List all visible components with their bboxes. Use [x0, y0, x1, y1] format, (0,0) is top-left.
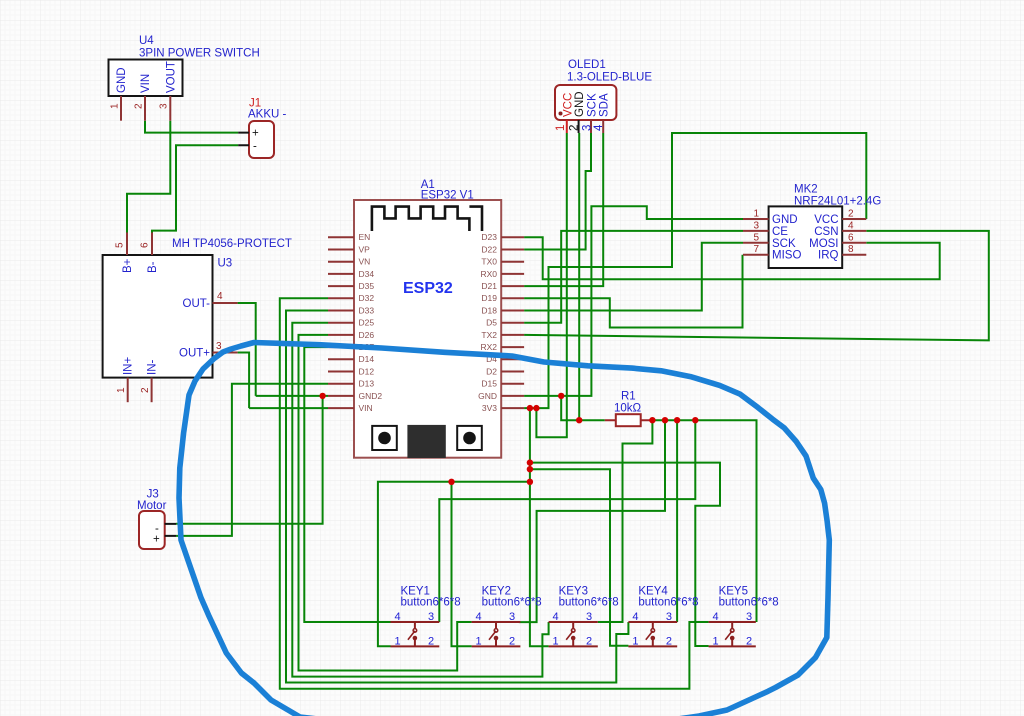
svg-text:button6*6*8: button6*6*8	[482, 597, 542, 609]
antenna meander	[372, 207, 482, 231]
display OLED1	[555, 59, 652, 120]
pin 1 NRF GND	[743, 209, 798, 227]
svg-text:6: 6	[140, 242, 151, 248]
wire ESP32.D23 to NRF.MOSI	[524, 237, 940, 279]
svg-text:TX0: TX0	[481, 257, 497, 267]
svg-text:AKKU -: AKKU -	[248, 109, 287, 121]
svg-text:D26: D26	[359, 330, 375, 340]
svg-text:D14: D14	[359, 354, 375, 364]
resistor R1 10k	[605, 391, 652, 427]
svg-text:IRQ: IRQ	[818, 250, 839, 262]
svg-text:4: 4	[713, 611, 719, 623]
svg-text:3PIN POWER SWITCH: 3PIN POWER SWITCH	[139, 48, 260, 60]
svg-text:+: +	[153, 534, 160, 546]
svg-text:VCC: VCC	[562, 93, 574, 117]
svg-text:MISO: MISO	[772, 250, 801, 262]
svg-text:D19: D19	[481, 293, 497, 303]
svg-text:NRF24L01+2.4G: NRF24L01+2.4G	[794, 196, 881, 208]
svg-text:2: 2	[666, 635, 672, 647]
wire R1 branch to KEY4.3	[676, 420, 678, 622]
svg-text:RX2: RX2	[480, 342, 497, 352]
junction pullup b	[527, 466, 533, 472]
svg-text:1: 1	[394, 635, 400, 647]
svg-text:10kΩ: 10kΩ	[614, 403, 642, 415]
svg-text:D12: D12	[359, 366, 375, 376]
wire OLED.VCC to 3V3 junction	[536, 133, 566, 437]
svg-text:D21: D21	[481, 281, 497, 291]
svg-text:button6*6*8: button6*6*8	[401, 597, 461, 609]
junction 3V3 row a	[527, 405, 533, 411]
pin 1 U3 IN+	[116, 357, 135, 403]
connector J3 Motor	[137, 489, 176, 550]
junction GND row	[558, 393, 564, 399]
svg-text:D2: D2	[486, 366, 497, 376]
svg-text:2: 2	[586, 635, 592, 647]
pin 8 NRF IRQ	[818, 244, 866, 262]
pin 3 U4	[159, 96, 171, 121]
svg-text:D18: D18	[481, 305, 497, 315]
svg-text:SCK: SCK	[772, 238, 796, 250]
ESP32 right pins	[478, 232, 524, 413]
wire ESP32.D5 to NRF.CE	[524, 231, 743, 323]
svg-text:1: 1	[754, 209, 760, 220]
connector J1 AKKU	[238, 98, 286, 159]
svg-text:D5: D5	[486, 318, 497, 328]
wire pullup branch to KEY5.1	[530, 463, 720, 646]
ESP32 left pins	[328, 232, 382, 413]
svg-text:TX2: TX2	[481, 330, 497, 340]
svg-text:3V3: 3V3	[482, 403, 497, 413]
svg-text:button6*6*8: button6*6*8	[719, 597, 779, 609]
svg-text:2: 2	[569, 125, 581, 131]
wire ESP32.D33 to KEY4.4	[286, 311, 628, 683]
pin 1 OLED VCC	[555, 93, 574, 133]
svg-text:VIN: VIN	[359, 403, 373, 413]
svg-text:B-: B-	[147, 261, 159, 273]
svg-text:GND: GND	[478, 391, 497, 401]
pin 7 NRF MISO	[743, 244, 801, 262]
svg-text:2: 2	[848, 209, 854, 220]
pin 3 OLED SCK	[582, 93, 599, 133]
button KEY5	[709, 586, 779, 648]
svg-text:2: 2	[134, 103, 145, 109]
svg-text:U4: U4	[139, 35, 154, 47]
svg-text:MH TP4056-PROTECT: MH TP4056-PROTECT	[172, 238, 292, 250]
svg-text:CSN: CSN	[814, 226, 838, 238]
svg-text:D34: D34	[359, 269, 375, 279]
svg-text:+: +	[252, 128, 259, 140]
wire ESP32.D27 to KEY1.4	[304, 347, 390, 622]
svg-text:GND: GND	[574, 91, 586, 117]
svg-text:VCC: VCC	[814, 214, 838, 226]
svg-text:SCK: SCK	[587, 93, 599, 117]
svg-text:1.3-OLED-BLUE: 1.3-OLED-BLUE	[567, 72, 652, 84]
button KEY2	[472, 586, 542, 648]
svg-text:VOUT: VOUT	[166, 61, 178, 93]
junction R1 right a	[649, 417, 655, 423]
svg-text:J3: J3	[147, 489, 159, 501]
pin 5 NRF SCK	[743, 232, 796, 250]
wire pullup branch to KEY4.1	[530, 469, 629, 646]
svg-text:3: 3	[509, 611, 515, 623]
svg-text:2: 2	[509, 635, 515, 647]
pin 3 NRF CE	[743, 220, 788, 238]
svg-text:D32: D32	[359, 293, 375, 303]
ESP32 boot button left	[372, 426, 397, 450]
junction R1 right b	[662, 417, 668, 423]
wire ESP32.D26 to KEY2.4	[299, 335, 472, 671]
wire OLED.GND down to R1 row	[578, 133, 580, 420]
svg-text:1: 1	[632, 635, 638, 647]
svg-text:VP: VP	[359, 244, 371, 254]
ESP32 en button right	[457, 426, 482, 450]
wire ESP32.D19 to NRF.MISO	[524, 255, 742, 328]
svg-text:4: 4	[593, 124, 605, 131]
wire U4.VIN to J1.+	[145, 121, 238, 133]
pin 2 U3 IN-	[140, 360, 159, 403]
svg-text:D25: D25	[359, 318, 375, 328]
wire VIN row	[249, 407, 328, 409]
wire U4.VOUT to U3.B+	[127, 121, 170, 233]
button KEY1	[391, 586, 461, 648]
wire J1.- to U3.B-	[152, 145, 238, 232]
svg-text:3: 3	[746, 611, 752, 623]
svg-text:1: 1	[713, 635, 719, 647]
svg-text:button6*6*8: button6*6*8	[638, 597, 698, 609]
svg-text:B+: B+	[122, 258, 134, 273]
pin 6 NRF MOSI	[809, 232, 866, 250]
svg-text:GND: GND	[116, 67, 128, 93]
svg-text:1: 1	[110, 103, 121, 109]
pin 6 U3 B-	[140, 233, 160, 274]
svg-text:GND2: GND2	[359, 391, 383, 401]
wire OLED.SCK to ESP32.D22	[524, 133, 591, 250]
wire ESP32.3V3 to NRF.VCC	[524, 133, 866, 408]
svg-text:4: 4	[394, 611, 400, 623]
svg-text:D35: D35	[359, 281, 375, 291]
pin 4 U3 OUT-	[183, 291, 238, 310]
svg-text:4: 4	[848, 220, 854, 231]
svg-text:3: 3	[586, 611, 592, 623]
pin 5 U3 B+	[115, 233, 135, 274]
svg-text:RX0: RX0	[480, 269, 497, 279]
wire U3.OUT+ to ESP32.VIN	[238, 353, 250, 409]
svg-text:D15: D15	[481, 379, 497, 389]
wire ESP32.D25 to KEY3.4	[292, 323, 548, 677]
svg-text:-: -	[253, 141, 257, 153]
svg-text:VIN: VIN	[140, 74, 152, 93]
svg-text:1: 1	[116, 387, 127, 393]
wire ESP32.D18 to NRF.SCK	[524, 243, 743, 311]
pin 4 OLED SDA	[593, 93, 611, 133]
wire R1 right bus to KEY5.3	[652, 420, 757, 622]
svg-text:4: 4	[476, 611, 482, 623]
svg-text:VN: VN	[359, 257, 371, 267]
svg-text:MK2: MK2	[794, 184, 818, 196]
svg-text:IN-: IN-	[147, 360, 159, 376]
svg-text:D13: D13	[359, 379, 375, 389]
wire R1 branch to KEY2.3	[519, 420, 665, 622]
junction 3V3 row b	[533, 405, 539, 411]
svg-text:D23: D23	[481, 232, 497, 242]
wire ESP32.D13 to J3.+	[176, 384, 328, 536]
wire GND junction to R1 left	[561, 396, 605, 420]
svg-text:3: 3	[666, 611, 672, 623]
svg-text:button6*6*8: button6*6*8	[559, 597, 619, 609]
junction R1 left OLED GND	[576, 417, 582, 423]
svg-text:2: 2	[428, 635, 434, 647]
svg-text:8: 8	[848, 244, 854, 255]
svg-text:OUT-: OUT-	[183, 298, 211, 310]
junction GND2/J3-	[319, 393, 325, 399]
svg-text:D33: D33	[359, 305, 375, 315]
svg-text:3: 3	[582, 125, 594, 131]
wire pullup branch to KEY1.1	[378, 482, 530, 647]
ESP32 usb connector	[407, 425, 445, 458]
junction pullup a	[527, 459, 533, 465]
svg-text:1: 1	[555, 125, 567, 131]
svg-text:4: 4	[217, 291, 223, 302]
svg-text:IN+: IN+	[123, 357, 135, 376]
svg-text:GND: GND	[772, 214, 798, 226]
button KEY3	[549, 586, 619, 648]
module ESP32 A1	[354, 179, 501, 458]
wire ESP32.TX2 to NRF.CSN	[524, 231, 989, 341]
svg-text:5: 5	[115, 242, 126, 248]
svg-text:Motor: Motor	[137, 500, 167, 512]
svg-text:OUT+: OUT+	[179, 348, 210, 360]
svg-text:SDA: SDA	[599, 93, 611, 117]
pin 2 NRF VCC	[814, 209, 866, 227]
svg-text:3: 3	[159, 103, 170, 109]
svg-text:U3: U3	[218, 258, 233, 270]
svg-text:2: 2	[140, 387, 151, 393]
switch U4	[109, 35, 260, 96]
svg-text:1: 1	[476, 635, 482, 647]
pin 4 NRF CSN	[814, 220, 866, 238]
svg-text:3: 3	[754, 220, 760, 231]
wire ESP32.GND to NRF.GND	[524, 206, 743, 396]
svg-text:1: 1	[553, 635, 559, 647]
wire OLED.SDA to ESP32.D21	[524, 133, 603, 286]
wire J3.- to GND2 junction	[176, 396, 323, 524]
pin 3 U3 OUT+	[179, 341, 238, 360]
wire branch to KEY2.1	[452, 482, 472, 647]
wire ESP32.D32 to KEY5.4	[280, 298, 709, 689]
svg-text:7: 7	[754, 244, 760, 255]
wire pullup column to KEY3.1	[530, 408, 549, 646]
svg-text:CE: CE	[772, 226, 788, 238]
svg-text:3: 3	[428, 611, 434, 623]
junction KEY2.1	[448, 479, 454, 485]
svg-text:6: 6	[848, 232, 854, 243]
radio module MK2 NRF24L01	[769, 184, 882, 269]
svg-text:OLED1: OLED1	[568, 59, 606, 71]
charger module U3	[103, 238, 292, 378]
wire R1 branch to KEY3.3	[598, 420, 653, 622]
button KEY4	[628, 586, 698, 648]
wire GND2 row	[256, 395, 328, 397]
svg-text:R1: R1	[621, 391, 636, 403]
freehand blue highlight loop	[179, 343, 829, 716]
junction R1 right c	[674, 417, 680, 423]
svg-text:MOSI: MOSI	[809, 238, 838, 250]
svg-text:5: 5	[754, 232, 760, 243]
wire U3.OUT- to ESP32.GND2	[238, 303, 256, 396]
junction R1 right d	[692, 417, 698, 423]
pin 2 OLED GND	[569, 91, 586, 133]
svg-text:D22: D22	[481, 244, 497, 254]
pin 2 U4	[134, 96, 146, 121]
svg-text:4: 4	[553, 611, 559, 623]
pin 1 U4	[110, 96, 122, 121]
svg-text:4: 4	[632, 611, 638, 623]
svg-text:2: 2	[746, 635, 752, 647]
svg-text:EN: EN	[359, 232, 371, 242]
wire R1 branch to KEY1.3	[439, 420, 695, 622]
svg-text:ESP32 V1: ESP32 V1	[421, 190, 474, 202]
svg-text:ESP32: ESP32	[403, 280, 453, 297]
junction pullup c	[527, 479, 533, 485]
